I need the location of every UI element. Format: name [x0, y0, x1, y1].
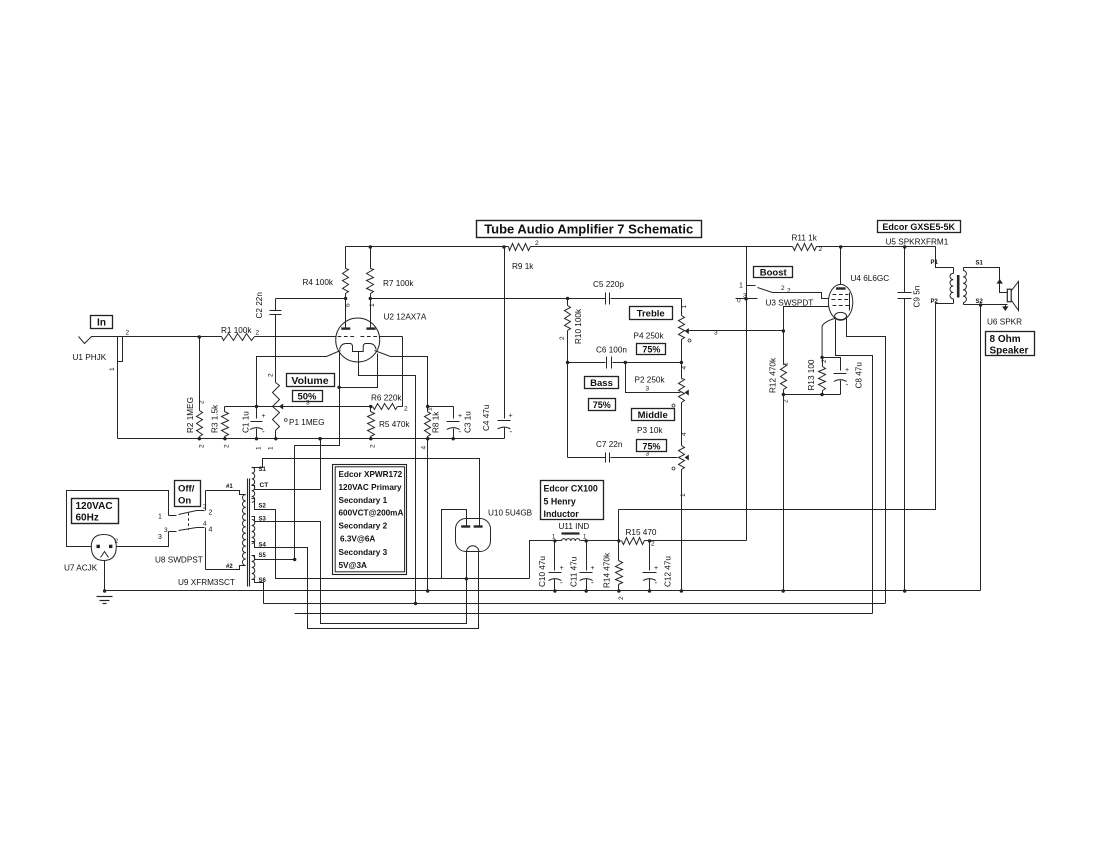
svg-text:2: 2 [370, 444, 377, 448]
power transformer core [247, 479, 249, 587]
potentiometer P2 250k (Bass) [681, 363, 683, 379]
resistor R5 470k [370, 407, 372, 412]
wire C6 row [566, 361, 569, 364]
svg-text:R14 470k: R14 470k [603, 552, 612, 588]
svg-text:-: - [459, 427, 462, 436]
svg-text:120VAC Primary: 120VAC Primary [339, 483, 403, 492]
svg-text:R9 1k: R9 1k [512, 262, 534, 271]
svg-text:-: - [655, 578, 658, 587]
svg-text:3: 3 [158, 534, 162, 541]
svg-text:U10 5U4GB: U10 5U4GB [488, 509, 533, 518]
svg-text:2: 2 [787, 288, 791, 295]
svg-text:P2: P2 [931, 299, 939, 305]
svg-text:75%: 75% [642, 345, 660, 355]
capacitor C7 22n [568, 457, 606, 459]
svg-text:#1: #1 [226, 484, 233, 490]
svg-text:5 Henry: 5 Henry [544, 497, 576, 507]
svg-text:U5 SPKRXFRM1: U5 SPKRXFRM1 [886, 238, 949, 247]
resistor R6 220k [369, 405, 372, 408]
switch U8 SWDPST pole 1 [169, 515, 177, 517]
speaker U6 SPKR [1007, 289, 1011, 302]
75% label box (bass) [589, 399, 616, 411]
svg-text:C6 100n: C6 100n [596, 346, 627, 355]
resistor R13 100 [822, 358, 824, 367]
svg-text:Bass: Bass [590, 378, 613, 389]
wire AC neutral to switch [117, 532, 169, 547]
svg-text:Edcor CX100: Edcor CX100 [544, 484, 598, 494]
Treble label box [630, 307, 673, 320]
svg-text:6.3V@6A: 6.3V@6A [340, 535, 375, 544]
switch U3 SWSPDT [746, 247, 748, 541]
svg-text:1: 1 [427, 407, 434, 411]
XFRM secondary 3 (S5-S6) [252, 556, 255, 562]
svg-text:P2 250k: P2 250k [635, 376, 666, 385]
svg-text:1: 1 [739, 283, 743, 290]
capacitor C11 47u [586, 541, 588, 571]
wire plug ground [104, 561, 106, 591]
wire U4 heater A [836, 320, 873, 614]
potentiometer P1 1MEG [275, 380, 277, 383]
title box [477, 221, 702, 238]
svg-text:50%: 50% [297, 392, 317, 403]
triode U2 12AX7A [336, 318, 380, 362]
capacitor C3 1u [428, 406, 454, 408]
resistor R2 1MEG [199, 337, 201, 411]
svg-text:2: 2 [651, 541, 655, 548]
svg-text:+: + [654, 565, 658, 572]
heater row 2 [295, 613, 873, 615]
wire B+ to OPT P1 [936, 247, 954, 268]
svg-text:2: 2 [268, 373, 275, 377]
svg-text:-: - [560, 578, 563, 587]
resistor R7 100k [370, 247, 372, 269]
wire U4 plate to B+ [840, 247, 842, 285]
svg-text:U4 6L6GC: U4 6L6GC [851, 274, 890, 283]
wire cathode rail to ground [783, 395, 785, 591]
wire P4 wiper to R12 node [782, 329, 785, 332]
main ground rail [105, 590, 981, 592]
capacitor C9 5n [904, 247, 906, 293]
svg-text:In: In [97, 318, 106, 329]
wire U2 heater pin to bottom maze [359, 352, 416, 604]
svg-text:C8 47u: C8 47u [855, 362, 864, 389]
svg-text:-: - [591, 578, 594, 587]
resistor R1 100k [222, 334, 255, 341]
resistor R9 1k [509, 244, 531, 251]
resistor R12 470k [783, 331, 785, 364]
svg-text:8 Ohm: 8 Ohm [990, 334, 1021, 345]
svg-text:+: + [458, 413, 462, 420]
svg-text:1: 1 [268, 446, 275, 450]
wire OPT P2 to B+ filter [619, 304, 954, 510]
svg-text:2: 2 [199, 400, 206, 404]
wire R1 to U2 grid [255, 336, 336, 338]
svg-text:C3 1u: C3 1u [464, 411, 473, 433]
svg-text:CT: CT [260, 482, 269, 489]
rectifier U10 5U4GB [456, 519, 491, 552]
svg-text:2: 2 [781, 285, 785, 292]
wire U2 right grid to R6 [380, 336, 403, 338]
resistor R10 100k [566, 297, 569, 300]
svg-text:Treble: Treble [637, 309, 665, 320]
resistor R3 1.5k [224, 407, 226, 412]
wire R12 R13 C8 bottom rail [784, 394, 841, 396]
svg-text:+: + [509, 413, 513, 420]
svg-text:3: 3 [714, 330, 718, 337]
svg-text:P1: P1 [931, 260, 939, 266]
svg-text:3: 3 [743, 293, 747, 300]
svg-text:4: 4 [681, 432, 688, 436]
U10 filament leads [466, 552, 468, 624]
svg-text:6: 6 [344, 303, 351, 307]
svg-text:+: + [560, 565, 564, 572]
wire B+ takeoff to filter [530, 541, 555, 579]
svg-text:U2 12AX7A: U2 12AX7A [384, 313, 427, 322]
svg-text:C4 47u: C4 47u [482, 404, 491, 431]
svg-text:75%: 75% [593, 400, 611, 410]
wire S3 to U10 filament [252, 517, 467, 624]
svg-text:R12 470k: R12 470k [769, 357, 778, 393]
capacitor C10 47u [554, 541, 556, 571]
svg-text:2: 2 [256, 330, 260, 337]
svg-text:5V@3A: 5V@3A [339, 561, 368, 570]
svg-text:Edcor XPWR172: Edcor XPWR172 [339, 470, 403, 479]
wire S1 to U10 plate [252, 459, 480, 527]
resistor R4 100k [345, 247, 347, 269]
svg-text:S6: S6 [259, 578, 267, 584]
capacitor C2 22n [275, 299, 277, 311]
Bass label box [585, 377, 619, 389]
capacitor C5 220p [568, 298, 606, 300]
svg-text:S5: S5 [259, 553, 267, 559]
wire CT to ground rail [252, 439, 321, 490]
svg-text:R11 1k: R11 1k [792, 234, 818, 243]
svg-text:R4 100k: R4 100k [303, 278, 334, 287]
input jack U1 PHJK [79, 337, 117, 344]
heater row 1 [264, 603, 886, 605]
svg-text:Off/: Off/ [178, 484, 195, 495]
wire U4 cathode [822, 319, 835, 358]
Boost label box [754, 267, 793, 278]
svg-text:-: - [846, 380, 849, 389]
wire S4 to U10 filament 2 [252, 542, 479, 629]
svg-text:R15 470: R15 470 [626, 528, 657, 537]
wire input to R1 [117, 336, 222, 338]
svg-text:0: 0 [737, 298, 741, 305]
svg-text:Secondary 2: Secondary 2 [339, 522, 388, 531]
wire OPT S1 to speaker [964, 268, 1008, 293]
svg-text:R5 470k: R5 470k [379, 420, 410, 429]
switch mechanical link [188, 513, 190, 530]
svg-text:1: 1 [681, 305, 688, 309]
svg-text:2: 2 [559, 336, 566, 340]
svg-text:U1 PHJK: U1 PHJK [73, 353, 107, 362]
svg-text:3: 3 [164, 527, 168, 534]
wire S2 to U10 plate 2 [252, 499, 530, 579]
AC plug U7 ACJK [91, 535, 116, 561]
svg-text:+: + [845, 367, 849, 374]
svg-text:U11 IND: U11 IND [559, 522, 590, 531]
svg-text:Middle: Middle [638, 410, 668, 421]
wire switch to XFRM primary bottom [206, 566, 246, 570]
svg-text:U7 ACJK: U7 ACJK [64, 564, 98, 573]
Off/On label box [175, 481, 201, 507]
svg-text:2: 2 [224, 444, 231, 448]
Edcor XPWR172 info box [333, 465, 407, 575]
svg-text:2: 2 [209, 510, 213, 517]
75% label box (treble) [637, 344, 666, 355]
svg-text:S3: S3 [259, 517, 267, 523]
svg-text:R10 100k: R10 100k [574, 308, 583, 344]
svg-text:2: 2 [618, 596, 625, 600]
wire wiper node row [225, 406, 371, 408]
Edcor GXSE5-5K label box [878, 221, 961, 233]
wire S6 to heater row [252, 580, 264, 604]
resistor R8 1k [426, 405, 429, 408]
svg-text:2: 2 [404, 406, 408, 413]
svg-text:Inductor: Inductor [544, 509, 580, 519]
svg-text:Volume: Volume [291, 375, 328, 387]
svg-text:2: 2 [115, 538, 119, 545]
svg-text:C1 1u: C1 1u [242, 411, 251, 433]
svg-text:R2 1MEG: R2 1MEG [186, 397, 195, 433]
50% label box [293, 391, 323, 402]
Edcor CX100 label box [541, 481, 604, 520]
wire AC hot to switch [67, 491, 169, 547]
potentiometer P3 10k (Middle) [681, 429, 683, 446]
ground rail (input stage) [118, 438, 505, 440]
svg-text:1: 1 [158, 514, 162, 521]
switch U8 SWDPST pole 2 [169, 531, 177, 533]
svg-text:S1: S1 [259, 467, 267, 473]
svg-text:1: 1 [680, 493, 687, 497]
svg-text:R7 100k: R7 100k [383, 279, 414, 288]
svg-text:P1 1MEG: P1 1MEG [289, 418, 325, 427]
svg-text:4: 4 [203, 521, 207, 528]
svg-text:C2 22n: C2 22n [255, 292, 264, 319]
svg-text:1: 1 [782, 362, 789, 366]
filter rail [553, 539, 556, 542]
svg-text:Tube Audio Amplifier 7 Schemat: Tube Audio Amplifier 7 Schematic [484, 222, 693, 237]
wire U4 heater B [847, 319, 886, 604]
svg-text:S2: S2 [259, 504, 267, 510]
wire U2 left cathode [257, 351, 341, 407]
svg-text:1: 1 [256, 446, 263, 450]
svg-text:C9 5n: C9 5n [913, 285, 922, 307]
capacitor C1 1u [256, 407, 258, 419]
resistor R15 470 [622, 538, 645, 545]
power transformer U9 XFRM3SCT primary [242, 495, 245, 501]
svg-text:U9 XFRM3SCT: U9 XFRM3SCT [178, 578, 235, 587]
wire S5 to heater row [252, 556, 295, 560]
svg-text:R6 220k: R6 220k [371, 394, 402, 403]
ground symbol [97, 596, 113, 598]
wire switch to U4 grid [773, 293, 829, 299]
capacitor C4 47u [504, 247, 506, 419]
svg-text:S1: S1 [976, 261, 984, 267]
XFRM secondary 1 (S1-CT-S2) [252, 467, 255, 473]
wire U4 g3 to R12 node [784, 307, 829, 331]
svg-text:Edcor GXSE5-5K: Edcor GXSE5-5K [882, 222, 955, 232]
svg-text:C12 47u: C12 47u [664, 556, 673, 587]
capacitor C6 100n [606, 357, 608, 369]
Middle label box [632, 409, 675, 421]
Volume label box [287, 374, 335, 387]
svg-text:120VAC: 120VAC [76, 501, 113, 512]
svg-text:3: 3 [646, 386, 650, 393]
svg-text:Speaker: Speaker [990, 346, 1029, 357]
svg-text:-: - [262, 427, 265, 436]
svg-text:P3 10k: P3 10k [637, 426, 663, 435]
svg-text:4: 4 [681, 366, 688, 370]
svg-text:#2: #2 [226, 564, 233, 570]
wire tone stack left column [567, 363, 569, 458]
svg-text:2: 2 [819, 246, 823, 253]
svg-text:C7 22n: C7 22n [596, 440, 623, 449]
svg-text:C11 47u: C11 47u [570, 556, 579, 587]
OPT secondary winding [963, 268, 965, 271]
svg-text:2: 2 [126, 330, 130, 337]
svg-text:75%: 75% [642, 442, 660, 452]
svg-text:600VCT@200mA: 600VCT@200mA [339, 509, 404, 518]
capacitor C8 47u [823, 358, 841, 371]
capacitor C12 47u [649, 541, 651, 571]
svg-text:S4: S4 [259, 543, 267, 549]
wire U2 heater pin 2 [339, 352, 341, 388]
svg-text:1: 1 [109, 367, 116, 371]
pentode U4 6L6GC [828, 284, 852, 320]
wire OPT S2 to speaker [964, 304, 1008, 306]
svg-text:4: 4 [421, 446, 428, 450]
svg-text:-: - [510, 427, 513, 436]
svg-text:60Hz: 60Hz [76, 513, 99, 524]
OPT core [957, 275, 960, 298]
wire filter output riser [618, 510, 620, 541]
B+ top rail [346, 246, 509, 248]
svg-text:+: + [591, 565, 595, 572]
svg-text:On: On [178, 496, 191, 507]
svg-text:R13 100: R13 100 [807, 359, 816, 390]
svg-text:Secondary 1: Secondary 1 [339, 496, 388, 505]
wire plate row left (C2 to U2 plate) [276, 298, 346, 300]
svg-text:Boost: Boost [760, 268, 788, 279]
svg-text:2: 2 [199, 444, 206, 448]
8 Ohm Speaker label box [986, 332, 1035, 356]
svg-text:2: 2 [821, 359, 828, 363]
svg-text:P4 250k: P4 250k [634, 332, 665, 341]
wire plate row right (U2 plate to tone stack) [371, 298, 568, 300]
75% label box (middle) [637, 440, 667, 452]
120VAC 60Hz label box [72, 499, 119, 524]
svg-text:+: + [262, 413, 266, 420]
svg-text:1: 1 [369, 303, 376, 307]
wire switch to XFRM primary top [206, 491, 246, 495]
svg-text:R3 1.5k: R3 1.5k [211, 404, 220, 433]
svg-text:Secondary 3: Secondary 3 [339, 548, 388, 557]
OPT primary winding [953, 268, 955, 274]
wire U2 right cathode [375, 351, 428, 407]
svg-text:R8 1k: R8 1k [432, 411, 441, 433]
svg-text:C5 220p: C5 220p [593, 280, 624, 289]
U10 plate leads [466, 510, 468, 527]
svg-text:U8 SWDPST: U8 SWDPST [155, 556, 203, 565]
potentiometer P4 250k (Treble) [681, 299, 683, 316]
resistor R14 470k [618, 541, 620, 561]
In label box [91, 316, 113, 329]
XFRM secondary 2 (S3-S4) [252, 520, 255, 526]
svg-text:2: 2 [535, 240, 539, 247]
resistor R11 1k [793, 244, 817, 251]
svg-text:4: 4 [209, 527, 213, 534]
wire R8 to ground rail [427, 439, 429, 591]
svg-text:R1 100k: R1 100k [221, 326, 252, 335]
svg-text:U6 SPKR: U6 SPKR [987, 318, 1022, 327]
svg-text:C10 47u: C10 47u [538, 556, 547, 587]
